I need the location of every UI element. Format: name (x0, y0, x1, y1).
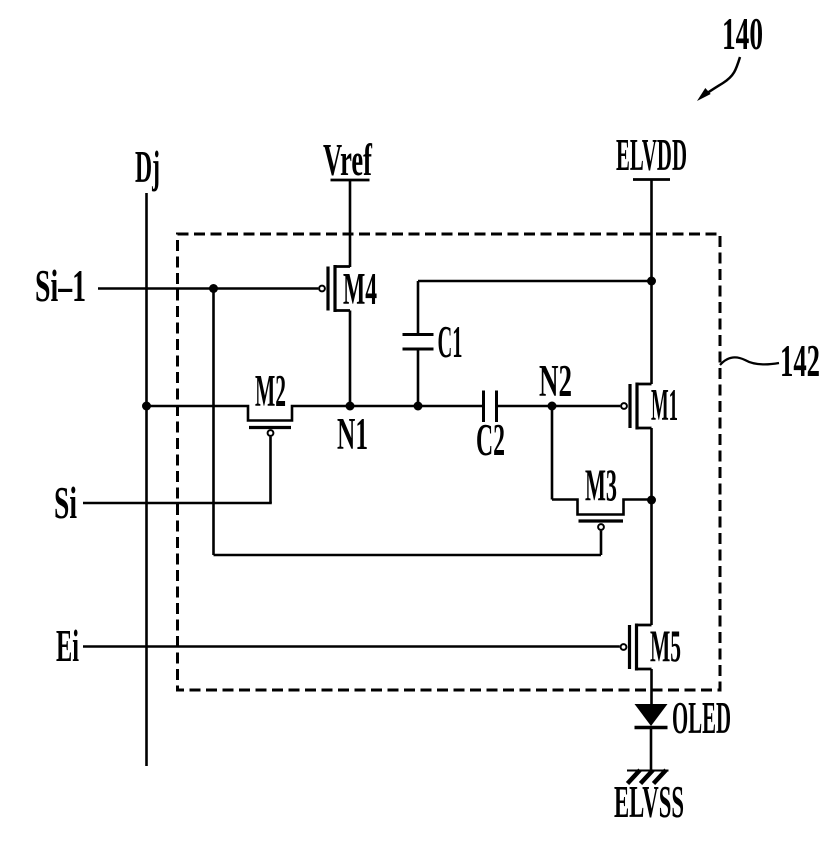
transistor M5 (621, 622, 681, 672)
power Vref supply bar (331, 179, 370, 182)
power ELVDD supply bar (633, 178, 670, 181)
junction dot C1 bottom (414, 402, 423, 411)
svg-text:142: 142 (780, 336, 820, 386)
pixel boundary dashed box 142 (178, 234, 721, 690)
ground ELVSS symbol (627, 770, 669, 784)
wire Dj data line (vertical) (145, 193, 148, 766)
junction dot ELVDD / C1 top wire (647, 277, 656, 286)
svg-text:Ei: Ei (56, 621, 79, 671)
svg-text:N2: N2 (539, 356, 572, 406)
wire Vref to M4 source (349, 180, 352, 267)
wire M4 drain to N1 (349, 267, 352, 407)
junction dot node N2 (548, 402, 557, 411)
transistor M1 (621, 380, 678, 430)
wire M3 row with channel notch (552, 500, 652, 515)
capacitor C2 (476, 391, 505, 466)
wire data row N1 with M2 channel notch (147, 406, 484, 421)
svg-text:M4: M4 (343, 264, 377, 314)
wire top plate run C1 to ELVDD (418, 280, 652, 283)
svg-text:Vref: Vref (323, 135, 373, 185)
arrow leader for 140 (697, 57, 740, 101)
svg-text:ELVDD: ELVDD (616, 130, 687, 180)
svg-text:C1: C1 (438, 317, 463, 367)
wire Si-1 branch down to M3 gate row (212, 289, 215, 556)
capacitor C1 (403, 281, 463, 406)
svg-text:M2: M2 (255, 366, 286, 416)
junction dot Si-1 branch (209, 284, 218, 293)
junction dot Dj / data row (142, 402, 151, 411)
wire OLED cathode to ELVSS (650, 729, 653, 770)
wire C2 to M1 gate (497, 405, 620, 408)
squiggle leader for 142 (720, 357, 779, 365)
svg-text:OLED: OLED (672, 693, 731, 743)
junction dot M1/M3/M5 (647, 496, 656, 505)
transistor M3 (579, 461, 624, 556)
svg-text:Si–1: Si–1 (35, 261, 86, 311)
svg-text:M3: M3 (585, 461, 617, 511)
svg-text:Dj: Dj (135, 142, 160, 192)
label 140 (722, 9, 763, 59)
wire M5 source to OLED (650, 669, 653, 704)
svg-text:ELVSS: ELVSS (614, 777, 684, 827)
svg-text:140: 140 (722, 9, 763, 59)
diode OLED (635, 693, 732, 743)
svg-text:N1: N1 (337, 409, 368, 459)
wire Ei emission line to M5 gate (83, 645, 620, 648)
transistor M2 (249, 366, 291, 503)
junction dot node N1 (346, 402, 355, 411)
svg-text:M5: M5 (650, 622, 681, 672)
wire Si-1 scan line (98, 287, 318, 290)
wire junction down to M5 (650, 500, 653, 625)
svg-text:Si: Si (54, 478, 77, 528)
wire Si scan line to M2 gate (83, 502, 272, 505)
svg-text:C2: C2 (476, 415, 505, 465)
wire Si-1 branch row to M3 gate (214, 554, 602, 557)
wire ELVDD vertical to M1 (650, 180, 653, 385)
wire M1 drain down (650, 428, 653, 500)
svg-text:M1: M1 (651, 380, 678, 430)
wire N2 down to M3 (551, 406, 554, 500)
transistor M4 (319, 264, 377, 314)
